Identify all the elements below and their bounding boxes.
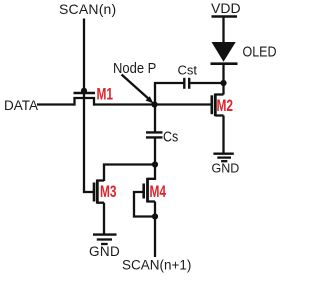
diode OLED — [211, 42, 238, 64]
wire M4 source down — [154, 202, 156, 217]
wire Cst to OLED cathode line — [190, 82, 223, 84]
label Cs — [163, 129, 178, 145]
label GND left — [89, 244, 120, 259]
svg-text:DATA: DATA — [4, 98, 38, 113]
svg-text:M4: M4 — [150, 183, 167, 201]
transistor M4 — [144, 178, 155, 203]
node P junction dot — [151, 101, 157, 107]
wire SCAN(n) vertical to M1/M3 gates — [84, 19, 94, 193]
wire node to M4 drain — [148, 165, 156, 179]
label M2 — [217, 97, 234, 115]
wire DATA input — [37, 103, 75, 105]
capacitor Cst — [184, 78, 189, 89]
transistor M1 gate bar — [74, 92, 96, 95]
wire node to M3 drain — [104, 165, 155, 182]
ground symbol left — [93, 235, 117, 244]
svg-text:OLED: OLED — [243, 44, 277, 60]
capacitor Cs — [146, 132, 163, 137]
node junction dot M4 source/SCAN(n+1) — [152, 213, 158, 219]
svg-text:VDD: VDD — [211, 0, 241, 16]
svg-text:M2: M2 — [217, 97, 234, 115]
wire M2 source to GND — [222, 116, 224, 154]
node junction dot M3/M4 — [152, 161, 158, 167]
node P pointer arrow — [122, 75, 154, 104]
label SCAN(n) — [59, 1, 116, 17]
node junction dot Cst/M2 drain — [220, 80, 226, 86]
wire Cs down to M3/M4 node — [154, 137, 156, 164]
svg-text:Node P: Node P — [113, 59, 156, 76]
svg-text:GND: GND — [212, 162, 240, 176]
svg-text:Cst: Cst — [178, 63, 198, 78]
svg-text:M1: M1 — [97, 86, 114, 104]
label OLED — [243, 44, 277, 60]
svg-text:SCAN(n+1): SCAN(n+1) — [122, 258, 191, 273]
svg-text:M3: M3 — [100, 183, 117, 201]
label M1 — [97, 86, 114, 104]
label Node P — [113, 59, 156, 76]
ground symbol right — [213, 154, 233, 162]
transistor M3 — [94, 180, 104, 204]
label VDD — [211, 0, 241, 16]
label Cst — [178, 63, 198, 78]
wire M4 gate loop to source — [134, 192, 155, 217]
wire M1 drain to M2 gate — [94, 103, 211, 105]
wire node P down to Cs — [154, 105, 156, 133]
label SCAN(n+1) — [122, 258, 191, 273]
label M4 — [150, 183, 167, 201]
transistor M1 channel hump — [75, 98, 95, 106]
svg-text:GND: GND — [89, 244, 120, 259]
label GND right — [212, 162, 240, 176]
svg-text:SCAN(n): SCAN(n) — [59, 1, 116, 17]
power VDD bar — [212, 15, 238, 18]
label M3 — [100, 183, 117, 201]
node junction dot M1 gate — [81, 88, 87, 94]
wire M3 source to GND — [103, 203, 105, 234]
wire OLED cathode to M2 drain — [222, 64, 224, 95]
wire SCAN(n+1) — [154, 217, 156, 258]
svg-text:Cs: Cs — [163, 129, 178, 145]
label DATA — [4, 98, 38, 113]
wire VDD to OLED anode — [222, 17, 224, 43]
wire node P up to Cst — [155, 83, 184, 105]
transistor M2 — [212, 94, 224, 117]
